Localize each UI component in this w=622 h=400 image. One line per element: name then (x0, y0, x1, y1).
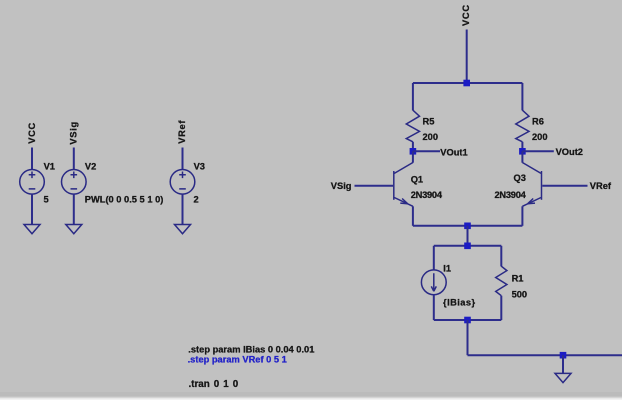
svg-text:VCC: VCC (461, 4, 471, 26)
wire Q1 emitter (412, 206, 414, 226)
Q1 emitter arrow (400, 199, 407, 204)
svg-text:Q3: Q3 (514, 173, 526, 183)
ground (V2) (66, 225, 82, 234)
junction emitter rail (464, 223, 471, 230)
voltage source V1 body (20, 170, 45, 195)
svg-text:500: 500 (512, 289, 528, 299)
junction VOut1 (410, 148, 417, 155)
svg-text:R5: R5 (423, 117, 435, 127)
svg-text:2: 2 (194, 195, 199, 205)
wire emitter rail (413, 225, 523, 227)
wire V3 top (182, 148, 184, 170)
wire V2 bottom (73, 194, 75, 224)
svg-text:V3: V3 (194, 162, 205, 172)
wire V2 top (73, 148, 75, 170)
svg-text:.tran 0 1 0: .tran 0 1 0 (189, 379, 239, 390)
wire R5 bottom (412, 142, 414, 152)
wire V3 bottom (182, 194, 184, 224)
svg-text:5: 5 (44, 195, 49, 205)
svg-text:Q1: Q1 (411, 175, 423, 185)
junction VOut2 (519, 148, 526, 155)
svg-text:R1: R1 (512, 273, 524, 283)
wire Q3 emitter (521, 206, 523, 226)
wire ground stub (562, 355, 564, 373)
junction (I1-R1 top) (464, 243, 471, 250)
svg-text:VOut2: VOut2 (556, 147, 583, 157)
wire down from bottom rail (467, 320, 469, 355)
wire top rail (413, 82, 523, 84)
svg-text:200: 200 (532, 132, 548, 142)
wire I1 top (433, 246, 435, 270)
svg-text:200: 200 (423, 132, 439, 142)
svg-text:VSig: VSig (331, 181, 352, 191)
svg-text:R6: R6 (532, 117, 544, 127)
transistor Q1 body (394, 163, 413, 174)
wire V1 top (31, 148, 33, 170)
voltage source V2 body (62, 170, 87, 195)
svg-text:VRef: VRef (177, 120, 187, 144)
svg-text:PWL(0 0 0.5 5 1 0): PWL(0 0 0.5 5 1 0) (85, 195, 164, 205)
wire Q1 base (355, 185, 394, 187)
svg-text:VSig: VSig (69, 121, 79, 144)
svg-text:{IBias}: {IBias} (443, 298, 476, 308)
junction ground node (560, 352, 567, 359)
resistor R6 (516, 110, 529, 142)
junction (I1-R1 bottom) (464, 317, 471, 324)
wire R1 bottom (500, 296, 502, 320)
svg-text:2N3904: 2N3904 (411, 190, 443, 200)
Q3 emitter arrow (528, 199, 535, 204)
wire R6 bottom (521, 142, 523, 152)
wire top rail (I1-R1) (434, 245, 502, 247)
wire bottom rail (I1-R1) (434, 319, 502, 321)
svg-text:VRef: VRef (590, 181, 612, 191)
junction top rail (463, 80, 470, 87)
wire bottom horizontal (468, 354, 622, 356)
transistor Q3 body (mirrored) (522, 163, 541, 174)
svg-text:VCC: VCC (27, 122, 37, 144)
resistor R1 (496, 266, 507, 296)
svg-text:.step param VRef 0 5 1: .step param VRef 0 5 1 (188, 355, 287, 365)
current source I1 body (421, 270, 446, 295)
wire V1 bottom (31, 194, 33, 224)
wire VOut2 stub (522, 150, 553, 152)
wire Q3 collector (521, 151, 523, 162)
ground (main) (555, 373, 571, 382)
svg-text:.step param IBias 0 0.04 0.01: .step param IBias 0 0.04 0.01 (188, 344, 314, 354)
wire R6 top (521, 83, 523, 110)
svg-text:2N3904: 2N3904 (495, 190, 527, 200)
wire I1 bottom (433, 295, 435, 320)
wire Q3 base (542, 185, 587, 187)
svg-text:V2: V2 (85, 162, 96, 172)
bottom status-bar edge (0, 392, 622, 397)
I1 arrow (431, 273, 436, 291)
resistor R5 (406, 110, 419, 142)
svg-text:V1: V1 (44, 162, 55, 172)
svg-text:I1: I1 (443, 264, 451, 274)
voltage source V3 body (170, 170, 195, 195)
ground (V3) (175, 225, 191, 234)
wire R1 top (500, 246, 502, 267)
ground (V1) (24, 225, 40, 234)
wire tail down (467, 226, 469, 246)
wire VCC down (466, 30, 468, 84)
wire R5 top (412, 83, 414, 110)
wire VOut1 stub (413, 150, 440, 152)
svg-text:VOut1: VOut1 (440, 147, 467, 157)
wire Q1 collector (412, 151, 414, 162)
